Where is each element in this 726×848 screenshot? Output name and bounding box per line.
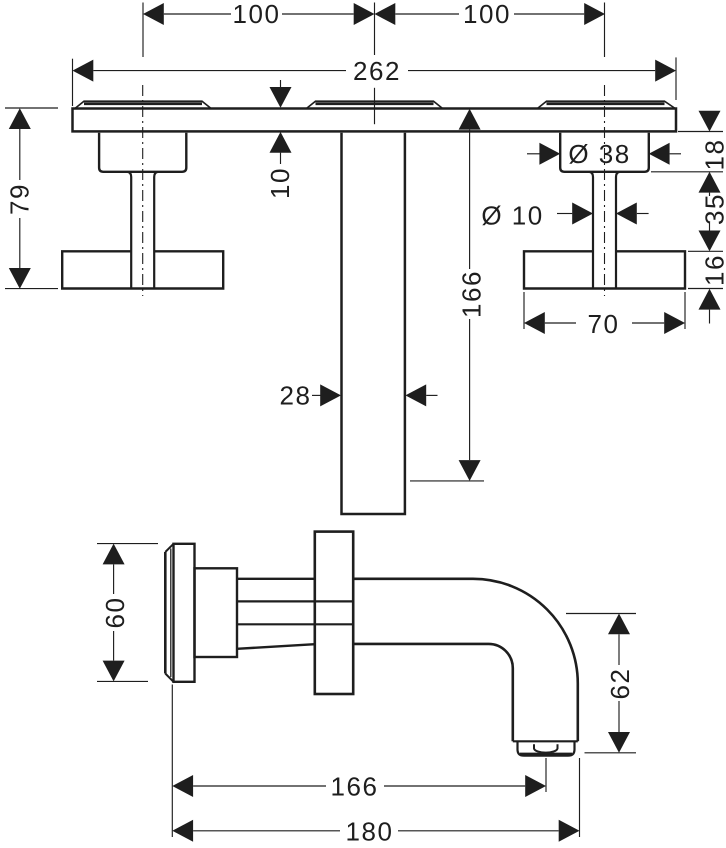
- label 166 side view: [331, 772, 379, 802]
- dimension 262: [73, 60, 677, 82]
- center mounting pad: [307, 101, 442, 108]
- extension line 70 left: [523, 292, 525, 329]
- dimension 166 top view: [410, 109, 484, 481]
- svg-text:18: 18: [700, 139, 726, 171]
- label 16: [700, 254, 726, 286]
- aerator: [518, 741, 575, 755]
- svg-text:100: 100: [463, 0, 511, 29]
- extension line right 100: [604, 3, 606, 58]
- spout column: [342, 133, 405, 514]
- extension line 70 right: [684, 292, 686, 329]
- right handle centerline: [604, 85, 606, 296]
- label 18: [700, 139, 726, 171]
- svg-text:35: 35: [700, 193, 726, 225]
- svg-text:262: 262: [353, 56, 401, 86]
- svg-text:28: 28: [280, 381, 312, 411]
- right valve block: [560, 133, 649, 172]
- svg-text:79: 79: [5, 183, 35, 215]
- left mounting pad: [76, 101, 211, 108]
- handle sleeve: [195, 568, 238, 657]
- extension line bar bottom right: [688, 288, 723, 290]
- wall plate: [73, 109, 677, 132]
- extension line spout end: [579, 758, 581, 837]
- dimension 79: [5, 108, 58, 289]
- escutcheon back edge: [165, 544, 173, 682]
- dimension 100 right: [375, 3, 606, 25]
- svg-text:166: 166: [331, 772, 379, 802]
- spout inner profile: [353, 644, 513, 741]
- label diameter 10: [481, 200, 543, 230]
- handle spindle: [237, 601, 353, 624]
- dimension 35: [699, 193, 721, 252]
- extension line block bottom right: [651, 171, 723, 173]
- svg-text:166: 166: [457, 270, 487, 318]
- svg-text:60: 60: [100, 597, 130, 629]
- left handle stem: [128, 172, 158, 289]
- label 166 top view: [457, 270, 487, 318]
- extension line left 100: [142, 3, 144, 58]
- dimension 18: [699, 111, 721, 193]
- label 100 left: [233, 0, 281, 29]
- extension line 262 left: [72, 59, 74, 106]
- label 79: [5, 183, 35, 215]
- left handle centerline: [142, 85, 144, 296]
- svg-text:180: 180: [346, 816, 394, 846]
- dimension 60: [97, 544, 158, 682]
- svg-text:100: 100: [233, 0, 281, 29]
- dimension 62: [566, 614, 636, 753]
- svg-text:Ø 38: Ø 38: [568, 139, 630, 169]
- extension line 262 right: [675, 57, 677, 100]
- label 262: [353, 56, 401, 86]
- right cross handle bar: [524, 251, 685, 288]
- spout centerline: [374, 88, 376, 124]
- svg-text:10: 10: [265, 167, 295, 199]
- dimension diameter 10: [557, 203, 649, 225]
- dimension 28: [312, 384, 438, 406]
- left valve block: [99, 133, 186, 172]
- label 60: [100, 597, 130, 629]
- spout outer profile: [353, 579, 578, 742]
- dimension 166 side view: [172, 775, 546, 797]
- label 62: [605, 668, 635, 700]
- dimension 100 left: [143, 3, 375, 25]
- svg-text:70: 70: [588, 309, 620, 339]
- left cross handle bar: [62, 251, 223, 288]
- right handle stem: [590, 172, 620, 289]
- svg-text:16: 16: [700, 254, 726, 286]
- svg-text:62: 62: [605, 668, 635, 700]
- dimension diameter 38: [527, 143, 681, 165]
- label 100 right: [463, 0, 511, 29]
- dimension 70: [524, 312, 685, 334]
- label 10: [265, 167, 295, 199]
- spout end cap: [513, 740, 578, 742]
- dimension 180: [172, 820, 579, 842]
- extension line bar top right: [688, 250, 723, 252]
- label diameter 38: [568, 139, 630, 169]
- extension line wall left: [171, 685, 173, 838]
- label 35: [700, 193, 726, 225]
- extension line aerator center: [545, 758, 547, 792]
- cross handle side view: [315, 532, 353, 694]
- dimension 16: [699, 289, 721, 324]
- extension line plate bottom right: [678, 131, 723, 133]
- extension line center 100: [374, 3, 376, 56]
- label 70: [588, 309, 620, 339]
- label 180: [346, 816, 394, 846]
- label 28: [280, 381, 312, 411]
- right mounting pad: [538, 101, 675, 108]
- escutcheon front body: [174, 544, 195, 682]
- dimension 10 plate thickness: [270, 80, 292, 164]
- spout pipe left segment: [237, 579, 315, 649]
- svg-text:Ø 10: Ø 10: [481, 200, 543, 230]
